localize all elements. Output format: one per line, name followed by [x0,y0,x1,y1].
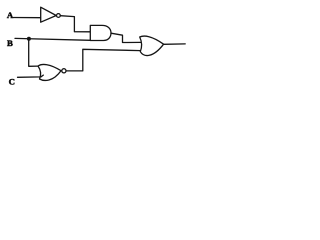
svg-text:A: A [7,10,14,20]
nor-gate U3 body [38,64,61,80]
wire B branch down to NOR input [29,39,38,67]
wire inverter output to AND input [60,16,90,32]
wire B to AND input [15,38,90,40]
wire C to NOR input [18,75,44,77]
inverter U1 output bubble [57,14,61,18]
wire NOR output to OR input [66,49,141,71]
inverter U1 triangle [41,7,57,22]
junction dot node B [27,37,31,41]
wire A to inverter [14,17,41,19]
nor-gate U3 output bubble [62,69,66,73]
svg-text:C: C [9,76,15,86]
or-gate U4 [140,36,164,55]
and-gate U2 [90,25,111,40]
wire OR output [164,43,186,45]
svg-text:B: B [7,38,13,48]
wire AND output to OR input [111,33,141,42]
